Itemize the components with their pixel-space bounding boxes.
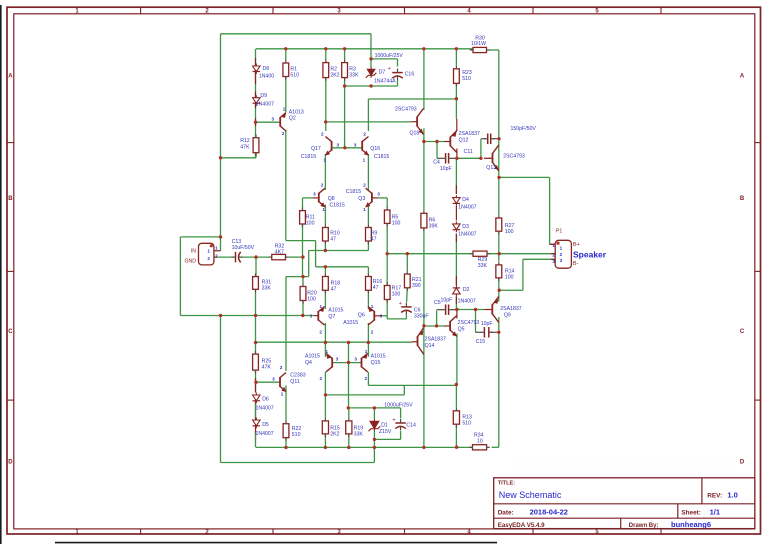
transistor Q6 [368,307,374,326]
svg-text:33K: 33K [262,285,272,291]
wire Q12 emitter stub [456,119,458,131]
svg-text:4K7: 4K7 [275,249,284,255]
wire Q9 emitter stub [498,290,500,301]
wire R9 bottom stub [367,241,369,251]
pin segment Q2 base node [255,118,257,126]
connector P? IN GND [199,243,221,265]
svg-text:D5: D5 [262,422,269,428]
wire feedback to speaker pin3 [499,289,523,291]
svg-text:47: 47 [373,285,379,291]
wire R25 to D6 [255,371,257,393]
wire C15 left stub [476,331,482,333]
resistor R16 [366,273,383,293]
svg-text:Q8: Q8 [328,196,335,202]
pin segment D9 [255,92,257,109]
wire C5 riser [436,311,438,327]
wire D2 to Q9 base node [455,296,457,309]
wire Q14 column [423,326,425,448]
wire R17 bottom drop [386,300,388,319]
wire D1 top stub [373,408,375,419]
svg-text:C1815: C1815 [374,154,389,160]
svg-text:Q15: Q15 [371,360,381,366]
wire to Q11 collector [285,277,287,371]
wire Q6 base stub [374,315,382,317]
wire R19 top stub [348,408,350,418]
wire C4 riser [436,142,438,156]
svg-text:1N4007: 1N4007 [256,406,274,412]
wire R11 bottom drop [302,224,304,257]
svg-text:C1815: C1815 [330,203,345,209]
transistor Q18 [417,109,423,135]
svg-text:Q3: Q3 [358,196,365,202]
svg-text:100: 100 [505,274,514,280]
wire R13 bottom stub [455,425,457,448]
wire Q17 emitter to Q8 [324,154,326,190]
svg-text:1: 1 [371,304,374,309]
wire Q5 collector stub [456,310,458,319]
wire C5 right stub [452,309,457,311]
svg-text:C14: C14 [406,423,416,429]
wire Q6 base link [383,315,388,317]
wire Q2 base link [256,121,280,123]
svg-text:Date:: Date: [498,509,514,516]
title block outline [494,478,755,529]
wire R31 top stub [255,255,257,276]
svg-text:1N4007: 1N4007 [458,299,476,305]
svg-text:47: 47 [330,236,336,242]
wire Q4 Q15 base link [332,362,361,364]
svg-text:Q11: Q11 [290,379,300,385]
wire C11 right stub [492,138,498,140]
wire Q3 base stub [372,197,379,199]
wire R18 to Q7 [324,290,326,309]
wire Q3 emitter to R9 [367,205,369,225]
wire right rail to Q13 [498,50,500,177]
svg-text:1: 1 [320,304,323,309]
transistor Q12 [450,131,457,153]
wire Q13 emitter to speaker [499,176,550,178]
wire C16 top link [371,58,397,60]
pin segment D5 cathode [255,426,257,440]
svg-text:C4: C4 [433,159,440,165]
wire left rail upper [220,34,222,251]
capacitor C5 [442,304,453,315]
wire D8 D9 column [255,49,257,158]
svg-text:330uF: 330uF [414,313,429,319]
wire R3 to input pair bases [344,78,346,148]
svg-text:3: 3 [377,192,380,197]
transistor Q13 [493,145,499,171]
wire Q17 Q16 base link [332,147,362,149]
wire tail current riser [308,251,310,277]
wire left lower rail [220,316,222,463]
wire C11 riser [480,139,482,159]
wire C11 left stub [481,138,486,140]
svg-text:33K: 33K [354,431,364,437]
wire R3 top stub [344,49,346,60]
transistor Q9 [492,296,499,322]
wire Q7 base stub [314,315,319,317]
svg-text:100: 100 [505,229,514,235]
svg-text:D8: D8 [263,66,270,72]
svg-text:Q16: Q16 [370,146,380,152]
wire D4 to D3 [455,206,457,221]
svg-text:100: 100 [392,291,401,297]
wire R5 top stub [386,198,388,207]
wire input gnd link [180,236,220,238]
wire C16 top riser [397,59,399,67]
zener D1 [369,419,381,431]
svg-text:A1015: A1015 [305,353,320,359]
transistor Q17 [325,137,331,156]
svg-text:Q14: Q14 [425,343,435,349]
wire to D4 [455,158,457,194]
svg-text:1N4007: 1N4007 [458,205,476,211]
wire R13 top riser [455,385,457,408]
svg-text:39K: 39K [429,224,439,230]
wire Q11 base link [256,381,280,383]
transistor Q8 [319,188,325,207]
resistor R3 [342,59,359,80]
transistor Q5 [450,315,457,336]
svg-text:D4: D4 [462,197,469,203]
wire R12 bottom link [221,157,257,159]
svg-text:C11: C11 [464,149,473,155]
wire Q9 base feed [457,309,484,311]
svg-text:10: 10 [477,439,483,445]
transistor Q16 [362,137,368,156]
svg-text:1: 1 [281,391,284,396]
wire left input drop [179,237,181,316]
wire speaker pin1 drop [549,177,551,244]
svg-text:Q12: Q12 [459,137,469,143]
wire R16 to Q6 [367,290,369,309]
svg-text:2: 2 [552,253,555,258]
wire Q18 to R6 [423,142,425,211]
wire C6 bottom stub [405,314,407,319]
resistor R11 [300,207,315,227]
svg-text:100: 100 [306,220,315,226]
wire output bias riser [348,343,350,408]
diode D4 [453,195,461,206]
resistor R19 [346,418,364,438]
svg-text:3: 3 [310,314,313,319]
capacitor C6 [401,303,412,314]
svg-text:2018-04-22: 2018-04-22 [530,508,568,517]
wire R21 to C6 [406,288,409,303]
wire D3 to D2 [455,234,457,286]
wire R16 top stub [367,267,369,274]
wire Q8 emitter to R10 [324,205,326,225]
svg-text:bunheang6: bunheang6 [671,520,711,529]
svg-text:C15: C15 [476,339,486,345]
wire D7 feed vertical [370,34,372,67]
wire node to feedback row [302,257,304,277]
svg-text:B: B [740,196,745,202]
wire Q13 base stub [484,157,493,159]
svg-text:10pF: 10pF [440,166,452,172]
svg-text:D3: D3 [462,224,469,230]
svg-text:2: 2 [215,254,218,259]
wire Q11 emitter to R22 [285,386,287,421]
wire D6 to D5 [255,404,257,418]
svg-text:2K2: 2K2 [330,431,339,437]
svg-text:Q2: Q2 [289,116,296,122]
ruler ticks top [140,7,142,14]
resistor R22 [283,421,301,441]
resistor R10 [323,224,340,244]
svg-text:A: A [740,74,745,80]
svg-text:+: + [399,301,402,307]
svg-text:100: 100 [392,220,401,226]
capacitor C15 [480,327,492,338]
wire bottom return rail [221,462,375,464]
wire R11 top stub [302,198,304,208]
transistor Q2 [280,113,286,132]
svg-text:Q5: Q5 [458,326,465,332]
resistor R15 [322,418,340,438]
svg-text:Z15V: Z15V [379,429,392,435]
svg-text:1: 1 [552,243,555,248]
wire R2 to Q17 collector [325,78,327,131]
svg-text:Q17: Q17 [311,146,321,152]
svg-text:D2: D2 [463,287,470,293]
wire C4 to Q13 base [456,157,481,159]
wire Q12 base feed [424,141,444,143]
capacitor C16 [392,69,403,80]
wire zener bottom riser [373,439,375,462]
svg-text:3: 3 [380,314,383,319]
svg-text:IN: IN [191,248,196,254]
svg-text:2SC4793: 2SC4793 [458,320,480,326]
svg-text:Q9: Q9 [504,313,511,319]
svg-text:2: 2 [321,182,324,187]
resistor R27 [496,215,515,235]
wire Q7 collector to Q4 [324,323,326,357]
wire speaker pin3 link [523,258,555,260]
svg-text:2: 2 [207,256,210,261]
svg-text:D: D [740,460,745,466]
svg-text:2: 2 [363,182,366,187]
wire R12 bottom stub [255,153,257,158]
svg-text:Q7: Q7 [328,314,335,320]
svg-text:C13: C13 [232,239,242,245]
svg-text:2SA1837: 2SA1837 [459,131,480,137]
wire Q15 to R13 node [368,384,456,386]
resistor R30 [470,47,490,52]
wire Q9 base stub [484,309,492,311]
wire Q18 emitter drop [423,128,425,141]
resistor R21 [404,271,421,291]
svg-text:Q13: Q13 [486,165,496,171]
svg-text:1N4744A: 1N4744A [374,78,396,84]
wire C6 bottom link [387,318,406,320]
wire Q6 collector to Q15 [367,323,369,357]
svg-text:1: 1 [560,246,563,251]
svg-text:3: 3 [354,143,357,148]
svg-text:150pF/50V: 150pF/50V [511,126,537,132]
svg-text:A1015: A1015 [371,353,386,359]
connector P1 pin1 dot [556,242,559,245]
ruler ticks left [7,142,14,144]
svg-text:1: 1 [326,349,329,354]
wire pin3 riser [522,259,524,290]
wire R14 top stub [498,254,500,262]
svg-text:C2383: C2383 [290,372,305,378]
svg-text:REV:: REV: [707,492,722,499]
svg-text:Speaker: Speaker [573,250,607,260]
wire Q18 base stub [412,121,418,123]
wire C4 left stub [437,157,442,159]
wire VAS feed horizontal [286,240,316,242]
transistor Q4 [326,353,332,372]
svg-text:33K: 33K [478,263,488,269]
wire input coupling left [214,256,233,258]
diode D6 [253,393,260,404]
svg-text:3: 3 [337,143,340,148]
svg-text:2SC4793: 2SC4793 [395,107,417,113]
wire Q5 base feed [424,325,444,327]
svg-text:10pF: 10pF [481,321,493,327]
title block faint sheet boundary [513,463,737,465]
wire R15 top riser [324,395,326,418]
svg-text:47: 47 [331,286,337,292]
svg-text:C16: C16 [405,72,415,78]
wire Q4 collector link [326,394,405,396]
wire C4 right stub [452,157,456,159]
svg-text:510: 510 [462,421,471,427]
wire link riser [403,385,405,395]
wire Q16 collector to R23 node [368,98,456,100]
transistor Q3 [366,188,372,207]
wire Q18 base feed [326,121,412,123]
svg-text:B-: B- [573,261,579,267]
wire R1 top stub [285,49,287,60]
pin segment D6 anode [255,378,257,393]
diode D5 [253,418,260,429]
resistor R12 [253,135,259,156]
wire Q8 base stub [312,197,318,199]
wire R27 to rail [498,231,500,254]
diode D2 [453,285,461,296]
svg-text:Q6: Q6 [358,312,365,318]
svg-text:D7: D7 [379,69,386,75]
wire C13 to R32 [241,256,269,258]
wire Q8 base link [303,197,313,199]
resistor R9 [366,224,378,244]
pin segment D2 cathode [455,276,457,285]
svg-text:1N4007: 1N4007 [458,232,476,238]
wire R10 R9 bottom rail [309,250,369,252]
svg-text:2: 2 [560,252,563,257]
svg-text:1: 1 [363,207,366,212]
wire C14 bottom stub [400,431,402,439]
wire Q16 emitter to Q3 [367,154,369,190]
screenshot edge artifact bottom [55,542,497,544]
svg-text:Sheet:: Sheet: [681,509,701,516]
svg-text:2: 2 [280,365,283,370]
svg-text:+: + [388,66,391,72]
wire Q7 base rail [180,315,313,317]
connector P1 Speaker [550,240,572,268]
svg-text:1: 1 [215,246,218,251]
svg-text:2K2: 2K2 [330,73,339,79]
wire R5 to R17 [386,224,388,286]
svg-text:1N4007: 1N4007 [256,431,274,437]
svg-text:1: 1 [283,107,286,112]
transistor Q7 [318,307,324,326]
capacitor C14 [395,419,406,430]
resistor R13 [453,408,472,428]
transistor Q11 [280,373,286,393]
zener D7 [366,67,377,78]
pin segment D8 [255,58,257,84]
resistor R25 [253,351,272,373]
wire Q14 base stub [412,341,418,343]
wire R14 bottom stub [498,278,500,290]
svg-text:100: 100 [307,296,316,302]
svg-text:New Schematic: New Schematic [499,490,562,500]
svg-text:1: 1 [207,248,210,253]
wire R19 bottom stub [348,434,350,447]
wire feedback row [286,276,309,278]
screenshot edge artifact left [0,5,2,544]
wire R18 R16 top rail [316,266,369,268]
pin segment D2 anode [455,296,457,304]
resistor R20 [300,283,317,303]
diode D3 [453,221,461,232]
wire C15 right stub [490,331,499,333]
resistor R2 [323,59,340,80]
svg-text:10uF/50V: 10uF/50V [232,245,255,251]
svg-text:P1: P1 [556,229,562,235]
transistor Q15 [362,353,368,372]
wire to R27 [498,177,500,214]
svg-text:47: 47 [371,236,377,242]
resistor R14 [496,262,515,281]
wire Q2 collector drop [285,130,287,241]
svg-text:510: 510 [462,76,471,82]
diode D9 [253,95,260,106]
wire Q5 base stub [444,325,450,327]
svg-text:3: 3 [336,356,339,361]
svg-text:2: 2 [320,376,323,381]
svg-text:A: A [8,74,13,80]
wire R20 bottom stub [302,301,304,316]
svg-text:2: 2 [282,131,285,136]
wire supply rail2 [256,48,473,50]
svg-text:47K: 47K [240,144,250,150]
wire R6 to Q14 [423,228,425,325]
svg-text:1N4007: 1N4007 [256,102,274,108]
wire R10 bottom stub [324,241,326,251]
svg-text:D9: D9 [260,93,267,99]
resistor R1 [283,60,299,80]
wire differential to Q14 base [256,341,412,343]
resistor R23 [454,66,472,87]
svg-text:D6: D6 [262,396,269,402]
svg-text:2SA1837: 2SA1837 [425,336,446,342]
wire zener top rail [348,407,400,409]
wire Q3 base link [378,197,387,199]
wire C15 riser [475,310,477,333]
svg-text:+: + [392,418,395,424]
svg-text:1: 1 [323,157,326,162]
svg-text:33K: 33K [349,73,359,79]
svg-text:510: 510 [290,73,299,79]
wire C4 corner [436,155,438,158]
svg-text:1/1: 1/1 [710,508,720,517]
